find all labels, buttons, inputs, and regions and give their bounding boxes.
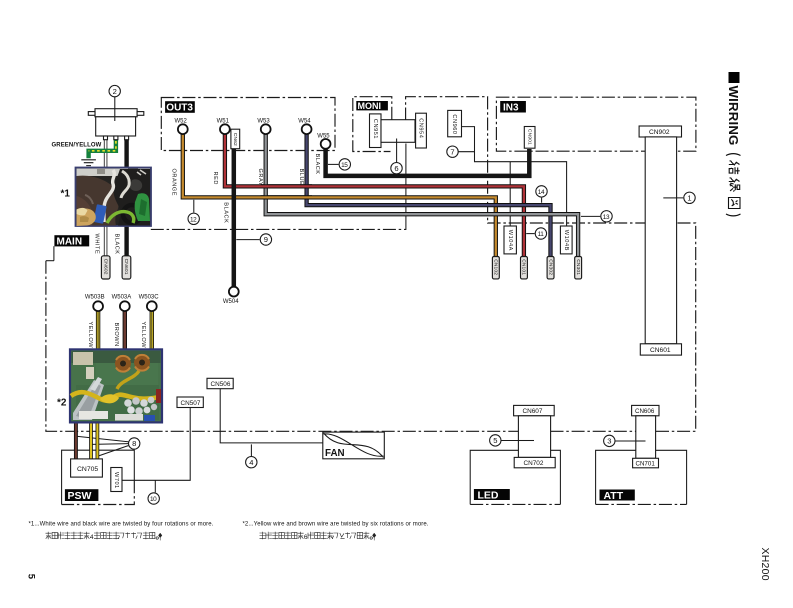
wire brown below photo to CN705 (74, 422, 78, 460)
wire CN506 to FAN (220, 389, 323, 443)
wire W503C yellow into PSW photo (150, 311, 154, 351)
svg-text:CN602: CN602 (102, 259, 108, 275)
connector CN601 label (bottom) (640, 344, 681, 355)
connector CN606 (632, 405, 659, 415)
svg-text:W504: W504 (223, 299, 239, 305)
svg-text:1: 1 (687, 194, 691, 203)
svg-text:WHITE: WHITE (93, 234, 99, 255)
node ref 8 (129, 438, 140, 449)
svg-text:ORANGE: ORANGE (170, 169, 176, 197)
svg-text:13: 13 (603, 214, 610, 221)
connector CN702 (514, 457, 555, 467)
connector CN902 label (639, 126, 681, 137)
svg-text:5: 5 (26, 574, 37, 580)
node ref 3 (604, 435, 615, 446)
svg-text:CN506: CN506 (211, 381, 231, 388)
component AC inlet left ear (88, 112, 95, 116)
label W104A (504, 226, 516, 254)
svg-text:BROWN: BROWN (113, 323, 119, 347)
node W503C (147, 301, 157, 311)
wire pointer ref 4 (250, 444, 252, 456)
svg-text:CN301: CN301 (575, 259, 581, 275)
node ref 9 (260, 234, 271, 245)
wire orange horizontal overdraw at gray/blue crossings (261, 195, 313, 199)
wire pointer ref 5 into LED connector (501, 440, 534, 442)
wire pointers ref 8 (three leaders) (78, 436, 129, 455)
svg-text:4: 4 (249, 458, 253, 467)
connector CN301 (575, 257, 582, 279)
label LED (474, 489, 510, 500)
label PSW (65, 489, 99, 501)
svg-text:ATT: ATT (604, 490, 624, 502)
svg-text:CN702: CN702 (524, 460, 544, 467)
wire CN960 to W104A/W104B harness (462, 127, 567, 227)
label page title WIRRING (vertical) (726, 72, 741, 216)
svg-text:BLUE: BLUE (298, 169, 304, 186)
node W504 (229, 287, 239, 297)
kanji ketsu (729, 161, 740, 174)
connector CN302 (547, 257, 554, 279)
connector CN602 (101, 256, 110, 279)
wire W503B yellow into PSW photo (96, 311, 100, 351)
blue connector in photo 1 (93, 204, 107, 224)
connector CN705 (71, 459, 103, 477)
wire W504 black from CN62 (232, 130, 237, 288)
node ref 11 (535, 228, 546, 239)
svg-text:9: 9 (264, 235, 268, 244)
wire black: AC inlet to CN601 (124, 140, 128, 258)
node OUT3 board dashed box (161, 98, 335, 151)
label OUT3 (165, 101, 195, 113)
svg-text:14: 14 (538, 189, 545, 196)
heatsink in photo 2 (73, 380, 104, 420)
node W52 (178, 124, 188, 134)
wire pointer ref 14 (541, 198, 543, 203)
kanji sen (729, 178, 740, 192)
connector CN601 (inlet) (122, 256, 131, 279)
svg-text:WIRRING: WIRRING (726, 86, 741, 146)
svg-text:FAN: FAN (325, 448, 345, 459)
svg-text:CN62: CN62 (232, 133, 238, 146)
svg-text:CN954: CN954 (418, 118, 424, 138)
svg-text:W503B: W503B (85, 294, 105, 300)
node ref 7 (447, 146, 458, 157)
svg-text:CN102: CN102 (493, 259, 499, 275)
svg-text:10: 10 (150, 496, 157, 503)
svg-text:OUT3: OUT3 (166, 103, 193, 114)
svg-text:GREEN/YELLOW: GREEN/YELLOW (52, 142, 102, 148)
svg-text:BLACK: BLACK (222, 202, 228, 223)
note *2 japanese (pseudo-glyphs) (260, 532, 376, 541)
label IN3 (500, 101, 526, 113)
svg-text:CN607: CN607 (523, 408, 543, 415)
svg-text:*1...White wire and black wire: *1...White wire and black wire are twist… (29, 521, 214, 527)
wire pointer ref 7 (458, 151, 474, 153)
svg-text:PSW: PSW (68, 490, 92, 502)
pin AC inlet pin L (104, 136, 108, 140)
node ref 12 (188, 213, 199, 224)
svg-text:CN701: CN701 (636, 461, 656, 468)
svg-text:RED: RED (212, 172, 218, 185)
svg-text:BLACK: BLACK (314, 154, 320, 175)
component photo *1 frame (76, 168, 152, 227)
label MONI (356, 101, 388, 110)
node ref 10 (148, 493, 159, 504)
wire pointer ref 12 (193, 200, 195, 213)
wire pointer ref 6 into MONI jack (396, 139, 398, 163)
svg-text:12: 12 (190, 216, 197, 223)
node W503A (120, 301, 130, 311)
node ref 1 (684, 192, 695, 203)
svg-text:CN601: CN601 (123, 259, 129, 275)
component LED connector bar (518, 416, 550, 458)
svg-text:5: 5 (493, 436, 497, 445)
label MAIN (54, 235, 89, 246)
node ref 13 (601, 211, 612, 222)
svg-text:*1: *1 (61, 189, 71, 200)
connector CN102 (492, 257, 499, 279)
node ref 4 (246, 457, 257, 468)
connector CN607 (514, 405, 555, 415)
node W55 (321, 139, 331, 149)
wire pointer ref 9 (236, 239, 259, 241)
svg-text:W52: W52 (175, 119, 188, 125)
white blocks in photo 2 (79, 411, 108, 419)
svg-text:W104B: W104B (563, 230, 569, 251)
svg-text:8: 8 (132, 439, 136, 448)
svg-text:CN601: CN601 (650, 347, 671, 354)
wire pointer ref 5 inside LED bar (518, 440, 534, 442)
wire W104A drop (509, 162, 511, 227)
wire pointer ref 3 into ATT connector (615, 440, 645, 442)
node W51 (220, 124, 230, 134)
wire pointer ref 1 into CN902 connector (663, 197, 683, 199)
node LED board box (470, 450, 560, 504)
wire W503A brown into PSW photo (123, 311, 127, 351)
node ref 6 (391, 163, 402, 174)
node ref 2 (109, 85, 120, 96)
svg-text:W503C: W503C (139, 294, 160, 300)
connector CN954 (416, 113, 427, 148)
node ATT board box (596, 450, 687, 504)
node MONI board dashed box (353, 97, 392, 152)
node MAIN board boundary left/bottom/right (46, 97, 696, 432)
svg-text:W51: W51 (217, 119, 230, 125)
wire CN507 to W701 (122, 408, 191, 481)
node MAIN board boundary jog bottom-left (46, 260, 54, 262)
connector CN960 (448, 110, 462, 136)
svg-text:XH200: XH200 (759, 548, 770, 581)
svg-text:CN902: CN902 (649, 129, 670, 136)
svg-text:W104A: W104A (507, 230, 513, 251)
wire pointer from ref 2 into AC inlet (114, 96, 116, 121)
svg-text:*2...Yellow wire and brown wir: *2...Yellow wire and brown wire are twis… (243, 521, 429, 527)
svg-text:CN705: CN705 (77, 466, 98, 473)
svg-text:GRAY: GRAY (257, 169, 263, 187)
toroid coils in photo 2 (115, 356, 131, 372)
wire pointer ref 3 inside ATT bar (636, 440, 646, 442)
svg-text:CN101: CN101 (521, 259, 527, 275)
pin AC inlet pin E (114, 136, 118, 140)
label W104B (560, 226, 572, 254)
node PSW board box (62, 450, 135, 504)
svg-text:MONI: MONI (358, 101, 382, 111)
wire yellow pair below photo to CN705 (89, 422, 93, 460)
node ref 15 (339, 159, 350, 170)
svg-text:CN951: CN951 (372, 119, 378, 139)
pin AC inlet pin N (125, 136, 129, 140)
node W503B (93, 301, 103, 311)
wire white: AC inlet to CN602 (104, 140, 108, 258)
svg-text:YELLOW: YELLOW (87, 322, 93, 349)
blue FP label in photo 2 (144, 415, 155, 421)
svg-text:CN507: CN507 (181, 400, 201, 407)
ground symbol (81, 160, 96, 166)
svg-text:CN960: CN960 (451, 114, 457, 134)
svg-text:W503A: W503A (112, 294, 132, 300)
svg-text:W55: W55 (317, 133, 330, 139)
svg-text:BLACK: BLACK (114, 234, 120, 255)
connector CN62 (231, 129, 240, 149)
capacitors in photo 2 (124, 399, 132, 407)
component AC inlet body (96, 117, 136, 136)
svg-text:CN901: CN901 (526, 129, 532, 145)
svg-text:6: 6 (304, 534, 308, 541)
component photo *2 frame (70, 349, 162, 422)
svg-text:3: 3 (607, 437, 611, 446)
svg-text:LED: LED (478, 490, 499, 502)
component FAN box (323, 432, 385, 459)
svg-text:*2: *2 (57, 398, 67, 409)
green patch in photo 1 (135, 193, 150, 221)
red element right edge photo 2 (156, 389, 161, 403)
wire pointer ref 11 (526, 233, 535, 235)
note *1 japanese (pseudo-glyphs) (46, 532, 162, 541)
svg-text:CN606: CN606 (635, 408, 655, 415)
node ref 14 (536, 186, 547, 197)
wire pointer ref 15 (328, 163, 339, 165)
wire pointer ref 13 (581, 215, 600, 217)
wire pointer ref 1 inside CN902 bar (663, 197, 677, 199)
green wire in photo 1 (107, 212, 134, 223)
kanji zu (729, 198, 741, 209)
svg-text:11: 11 (538, 231, 545, 238)
white cables in photo 1 (104, 170, 115, 222)
wire W51 red: OUT3 to CN101 (225, 132, 524, 258)
connector CN951 (370, 114, 382, 148)
wire pointer ref 6 inside MONI jack (396, 139, 398, 143)
wire W52 orange: OUT3 to CN102 (183, 132, 496, 258)
component MONI jack (381, 120, 415, 143)
svg-text:MAIN: MAIN (57, 236, 83, 247)
label ATT (600, 490, 635, 501)
yellow cable in photo 2 (71, 392, 159, 400)
wire pointer ref 2 inside AC inlet (114, 109, 116, 121)
svg-text:CN302: CN302 (547, 259, 553, 275)
connector CN507 (177, 397, 203, 408)
connector CN101 (521, 257, 528, 279)
wire MAIN boundary riser at MONI jack (405, 144, 407, 230)
svg-text:4: 4 (90, 534, 94, 541)
node W54 (302, 124, 312, 134)
wire W53 gray: OUT3 to CN301 (266, 132, 578, 258)
connector CN506 (207, 378, 233, 388)
svg-text:W701: W701 (113, 472, 119, 489)
svg-text:6: 6 (394, 164, 398, 173)
svg-text:W54: W54 (298, 119, 311, 125)
label W701 (111, 468, 122, 492)
node MAIN board boundary top-left edge (53, 246, 55, 261)
wire green/yellow: AC inlet to ground (89, 140, 116, 159)
node ref 5 (490, 435, 501, 446)
svg-text:YELLOW: YELLOW (140, 322, 146, 349)
svg-text:W53: W53 (257, 119, 270, 125)
svg-text:7: 7 (450, 147, 454, 156)
svg-text:2: 2 (113, 87, 117, 96)
svg-text:IN3: IN3 (503, 103, 519, 114)
tan blob in photo 1 (77, 208, 96, 226)
component ATT connector bar (636, 416, 656, 459)
connector CN901 (524, 127, 535, 149)
node W53 (261, 124, 271, 134)
wire W54 blue: OUT3 to CN302 (307, 132, 551, 258)
svg-text:15: 15 (341, 162, 348, 169)
wire red horizontal overdraw at gray/blue crossings (261, 184, 313, 188)
wire W55 black to CN901 (326, 148, 530, 176)
connector CN701 (633, 458, 659, 468)
dark ring in photo 1 (123, 205, 141, 223)
component AC inlet right ear (137, 112, 144, 116)
node IN3 board dashed box (496, 97, 696, 151)
wire pointer ref 10 (154, 480, 156, 492)
component AC inlet flange (95, 109, 137, 117)
component CN902/CN601 connector bar (645, 137, 676, 344)
